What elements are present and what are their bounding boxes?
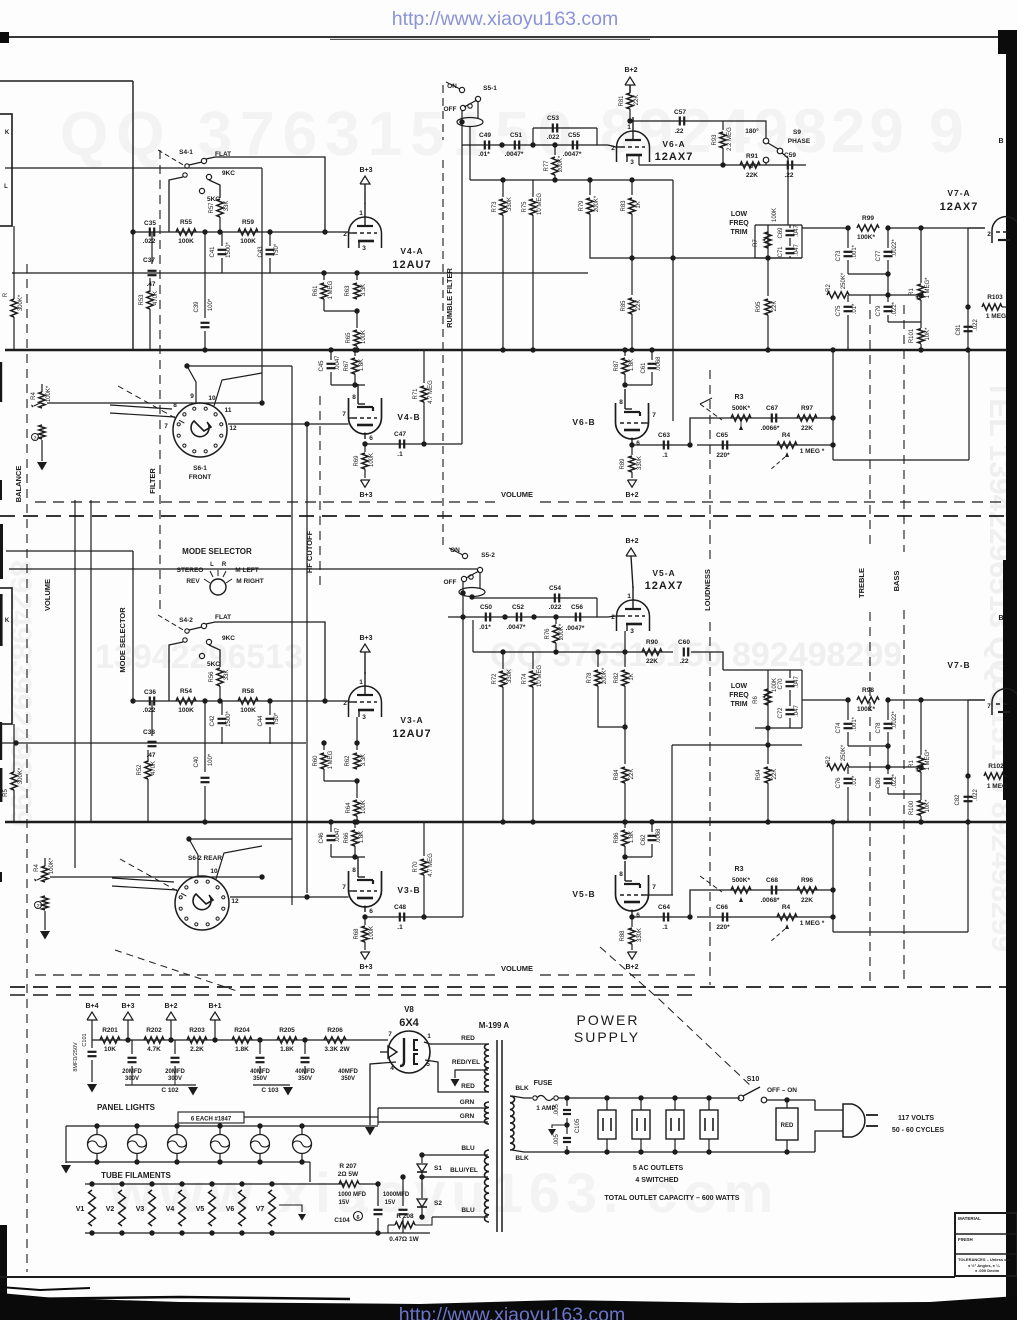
svg-text:300K*: 300K* [18,767,24,784]
wire [359,1183,378,1185]
svg-text:1: 1 [627,593,631,600]
svg-text:OFF: OFF [444,106,457,113]
wire [422,1176,488,1178]
svg-text:QQ 376315150: QQ 376315150 [60,100,580,169]
svg-text:10K*: 10K* [925,327,931,341]
svg-text:MODE SELECTOR: MODE SELECTOR [182,547,252,556]
resistor R65 [356,311,358,328]
wire [169,177,183,232]
wire [477,101,479,118]
svg-text:TRIM: TRIM [730,229,747,236]
svg-text:C45: C45 [319,360,325,372]
svg-text:1: 1 [359,210,363,217]
rotary switch S6-1 [173,403,227,457]
svg-text:470K: 470K [151,761,157,775]
svg-text:R59: R59 [242,219,254,226]
capacitor C52 [516,613,518,622]
triode V3-A [349,686,382,717]
resistor R101 [918,329,924,344]
capacitor C54 [534,597,597,599]
wire [261,168,263,403]
wire [887,274,889,295]
svg-text:C70: C70 [778,678,784,690]
dashed diagonal linkage [115,950,240,992]
wire [849,294,921,296]
resistor R5 300K [11,772,17,790]
svg-text:V2: V2 [106,1206,115,1213]
wire [216,846,262,879]
svg-text:.005: .005 [554,1104,560,1116]
svg-text:C46: C46 [319,832,325,844]
svg-text:3: 3 [630,159,634,166]
svg-text:R89: R89 [620,458,626,470]
svg-text:R94: R94 [756,769,762,781]
svg-text:.0068: .0068 [656,356,662,372]
resistor R78 [597,652,599,667]
svg-text:S6-1: S6-1 [193,465,207,472]
wire [209,645,220,667]
winding GRN section [485,1102,490,1124]
resistor R2 [827,292,849,298]
svg-text:330K: 330K [507,669,513,683]
svg-text:C77: C77 [876,250,882,262]
resistor R57 [217,199,223,217]
wire [512,1096,532,1098]
svg-text:7: 7 [987,703,991,710]
wire [455,1070,488,1078]
resistor R3 lower [731,887,751,893]
svg-text:POWER: POWER [577,1012,640,1028]
svg-text:4 SWITCHED: 4 SWITCHED [635,1177,678,1184]
capacitor C53 [532,128,534,145]
svg-text:12AX7: 12AX7 [655,151,694,163]
svg-text:500K*: 500K* [732,405,751,412]
svg-text:LOW: LOW [731,211,748,218]
wire [887,746,889,767]
svg-text:R70: R70 [413,861,419,873]
svg-text:V6-B: V6-B [572,417,595,427]
svg-text:C37: C37 [143,257,155,264]
resistor R75 [532,180,534,197]
resistor R62 [356,743,358,750]
resistor R59 [238,229,258,235]
ac outlet 1 [598,1110,616,1139]
svg-text:C65: C65 [716,432,728,439]
svg-text:330K: 330K [507,197,513,211]
svg-text:6: 6 [636,912,640,919]
svg-text:V3-A: V3-A [400,715,423,725]
svg-text:.0022*: .0022* [892,239,898,257]
svg-text:B+2: B+2 [625,538,638,545]
dashed lever 2 [120,859,188,897]
capacitor C63 [663,441,665,450]
svg-text:.022*: .022* [892,301,898,316]
svg-text:OFF – ON: OFF – ON [767,1087,797,1094]
wire [462,617,464,917]
svg-text:12AU7: 12AU7 [392,259,431,271]
svg-text:B: B [998,615,1003,622]
wire [66,1161,310,1163]
wire [590,214,802,258]
svg-text:100*: 100* [208,298,214,311]
triode V7-A partial [992,217,1017,243]
svg-text:8MFD/250V: 8MFD/250V [73,1042,79,1072]
svg-text:1.8K: 1.8K [359,359,365,371]
wire [206,622,325,701]
svg-text:180°: 180° [745,127,759,135]
resistor R53 [149,278,151,292]
svg-text:100K: 100K [178,707,194,714]
svg-text:.0047*: .0047* [566,625,585,632]
capacitor C66 [722,913,724,922]
svg-text:LOUDNESS: LOUDNESS [703,569,712,611]
svg-text:8: 8 [619,871,623,878]
svg-text:1: 1 [427,1033,431,1040]
wire [697,444,833,446]
resistor R60 [323,743,325,750]
dashed lever R3 lower [700,876,722,892]
capacitor C35 [149,228,151,237]
capacitor C78 [887,700,889,720]
wire [479,572,481,588]
resistor R4 pot [777,442,797,448]
wire [848,745,888,747]
svg-text:R65: R65 [346,332,352,344]
svg-text:330K: 330K [637,928,643,942]
wire [512,1150,567,1152]
resistor R99 [857,225,879,231]
svg-text:5KC: 5KC [207,661,220,668]
svg-text:330K: 330K [637,456,643,470]
svg-text:40MFD: 40MFD [250,1069,270,1075]
svg-text:C48: C48 [394,904,406,911]
svg-text:S2: S2 [434,1200,442,1207]
svg-text:100K: 100K [361,330,367,344]
capacitor C44 [269,701,271,715]
svg-text:R100: R100 [909,800,915,815]
resistor R70 [423,822,425,856]
resistor R87 [624,350,626,356]
svg-text:C80: C80 [876,777,882,789]
svg-text:R1: R1 [909,760,915,768]
svg-text:C74: C74 [836,722,842,734]
winding BLU section [484,1150,489,1222]
svg-text:C35: C35 [144,220,156,227]
wire [112,886,177,890]
wire [461,110,463,145]
wire [671,745,673,895]
capacitor C50 [485,613,487,622]
svg-text:C61: C61 [641,362,647,374]
input jack box 2 [0,588,12,724]
svg-text:C72: C72 [778,707,784,719]
svg-text:R73: R73 [492,201,498,213]
svg-text:HF CUTOFF: HF CUTOFF [305,530,314,573]
svg-text:TREBLE: TREBLE [857,568,866,598]
filament V4 [179,1190,186,1226]
svg-text:R202: R202 [146,1027,162,1034]
svg-text:22K: 22K [636,300,642,311]
power plug [843,1104,865,1137]
wire [364,652,366,674]
resistor R97 [797,415,817,421]
svg-text:10 MEG: 10 MEG [537,665,543,687]
svg-text:1 MEG *: 1 MEG * [800,448,825,455]
wire [462,581,464,617]
svg-text:BLK: BLK [515,1155,529,1162]
resistor R72 [502,652,504,669]
wire [639,164,806,166]
resistor R81 [629,85,631,92]
resistor R58 [238,698,258,704]
wire [92,1039,388,1041]
wire [815,1131,843,1152]
svg-text:6: 6 [369,435,373,442]
svg-text:C78: C78 [876,722,882,734]
triode V6-B [616,403,649,439]
resistor R94 [767,728,769,764]
wire [967,232,969,350]
svg-text:.01*: .01* [479,624,491,631]
svg-text:S5-1: S5-1 [483,85,497,92]
svg-text:8: 8 [352,394,356,401]
wire [625,384,652,386]
svg-text:FREQ: FREQ [729,692,749,699]
wire [690,418,833,445]
wire [782,153,788,225]
resistor R82 [624,652,626,667]
resistor R88 [631,916,633,927]
svg-text:V4: V4 [166,1206,175,1213]
capacitor .005 a [566,1098,568,1106]
svg-text:750*: 750* [274,243,280,256]
ground arrow RED/YEL [451,1079,460,1087]
resistor R56 [217,668,223,686]
diode S2 [421,1177,423,1198]
switch S5-1 [444,82,498,127]
wire [354,740,359,745]
ground arrow balance [41,440,43,461]
svg-text:R2: R2 [826,756,832,764]
trim network R7 [767,225,769,258]
svg-text:1.8K: 1.8K [629,831,635,843]
svg-text:250K*: 250K* [841,272,847,289]
wire [85,1232,430,1234]
wire [90,500,92,822]
svg-text:6 EACH #1847: 6 EACH #1847 [191,1117,232,1123]
svg-text:B+2: B+2 [164,1003,177,1010]
svg-text:R78: R78 [587,672,593,684]
capacitor C103c [347,1040,349,1054]
svg-text:MATERIAL: MATERIAL [958,1216,981,1221]
svg-text:220*: 220* [716,452,730,459]
svg-text:R61: R61 [313,285,319,297]
wire [387,1225,389,1233]
svg-text:.01*: .01* [852,775,858,786]
svg-text:B+2: B+2 [625,964,638,971]
svg-text:B: B [998,138,1003,145]
svg-text:0.47Ω 1W: 0.47Ω 1W [389,1236,419,1243]
resistor R61 [323,273,325,280]
svg-text:1000 MFD: 1000 MFD [338,1192,367,1198]
svg-text:R85: R85 [621,300,627,312]
svg-text:TOTAL OUTLET CAPACITY – 600: TOTAL OUTLET CAPACITY – 600 WATTS [605,1195,740,1202]
svg-text:V3: V3 [136,1206,145,1213]
wire [253,1084,290,1086]
svg-text:R84: R84 [614,769,620,781]
wire [461,145,463,444]
svg-text:C55: C55 [568,132,580,139]
svg-text:R93: R93 [712,134,718,146]
svg-text:VOLUME: VOLUME [501,964,533,973]
svg-text:22K: 22K [746,172,758,179]
svg-text:http://www.xiaoyu163.com: http://www.xiaoyu163.com [392,8,619,30]
svg-text:R72: R72 [492,673,498,685]
svg-text:7: 7 [342,884,346,891]
wire [12,272,588,274]
svg-text:C105: C105 [575,1118,581,1133]
ground arrow C102 [188,1087,198,1096]
svg-text:R101: R101 [909,328,915,343]
svg-text:FILTER: FILTER [148,468,157,494]
wire [189,838,292,840]
wire [638,155,640,165]
svg-text:S6-2 REAR: S6-2 REAR [188,855,222,862]
wire [110,413,175,417]
svg-text:C76: C76 [836,777,842,789]
svg-text:.022: .022 [549,604,562,611]
dashed treble line [869,295,871,550]
svg-text:V1: V1 [76,1206,85,1213]
right edge black bar [1006,30,1017,1320]
wire [12,272,14,274]
svg-text:GRN: GRN [460,1099,475,1106]
capacitor C62 [651,822,653,832]
svg-text:C60: C60 [678,639,690,646]
svg-text:R103: R103 [987,294,1003,301]
svg-text:BLU: BLU [461,1207,475,1214]
wire [815,1100,843,1110]
filament V7 [269,1190,276,1226]
svg-text:5: 5 [426,1061,430,1068]
svg-text:.0066*: .0066* [761,425,780,432]
wire [187,366,196,404]
svg-text:100K: 100K [369,453,375,467]
wire [378,1107,488,1109]
svg-text:.005: .005 [554,1134,560,1146]
wire [324,780,357,782]
resistor R202 [144,1037,164,1043]
svg-text:R71: R71 [413,388,419,400]
transformer core [496,1040,498,1232]
ground arrow C101 [87,1084,97,1093]
svg-text:1 MEG: 1 MEG [328,280,334,299]
svg-text:R4: R4 [782,904,791,911]
svg-text:R97: R97 [801,405,813,412]
svg-text:http://www.xiaoyu163.com: http://www.xiaoyu163.com [399,1304,626,1320]
wire [767,1099,815,1101]
capacitor C80 [887,767,889,774]
capacitor C51 [514,141,516,150]
resistor R68 [364,917,366,925]
wire [291,366,293,905]
svg-text:S9: S9 [793,129,801,136]
wire [125,1084,196,1086]
svg-text:9: 9 [190,393,194,400]
svg-text:R90: R90 [646,639,658,646]
svg-text:B+3: B+3 [359,964,372,971]
svg-text:2: 2 [987,231,991,238]
resistor R103 [982,304,1002,310]
svg-text:3: 3 [362,245,366,252]
svg-text:7: 7 [342,411,346,418]
svg-text:R95: R95 [756,301,762,313]
resistor 300K upper-left [11,299,17,317]
svg-text:10: 10 [208,395,216,402]
svg-text:7: 7 [388,1031,392,1038]
mode selector control [177,547,264,595]
svg-text:B+2: B+2 [624,67,637,74]
wire [74,500,76,868]
wire [473,651,673,653]
svg-text:7: 7 [652,412,656,419]
svg-text:6: 6 [356,1215,359,1221]
svg-text:R69: R69 [354,455,360,467]
resistor R96 [797,887,817,893]
svg-text:12AX7: 12AX7 [645,580,684,592]
capacitor C75 [847,295,849,302]
svg-text:350V: 350V [298,1076,312,1082]
wire [697,916,833,918]
tube V8 6X4 [380,1031,431,1073]
svg-text:TOLERANCES – Unless oth: TOLERANCES – Unless oth [958,1257,1011,1262]
capacitor C39 [204,232,206,318]
svg-text:33K: 33K [224,670,230,681]
svg-text:.022: .022 [973,319,979,331]
ground arrow filaments [279,1205,302,1212]
wire [228,423,349,425]
svg-text:STEREO: STEREO [177,567,204,574]
resistor R63 [356,273,358,280]
svg-text:R60: R60 [313,755,319,767]
svg-text:3.3K: 3.3K [361,284,367,296]
resistor R204 [232,1037,252,1043]
svg-text:.1: .1 [397,924,403,931]
wire [968,228,985,232]
svg-text:9KC: 9KC [222,170,235,177]
svg-text:1K: 1K [636,201,642,208]
wire [9,568,477,570]
svg-text:RED/YEL: RED/YEL [452,1059,480,1066]
panel lamp 4 [211,1135,230,1154]
capacitor C74 [847,700,849,720]
svg-text:200K*: 200K* [559,623,565,640]
wire [132,569,134,701]
wire [672,744,802,746]
svg-text:C52: C52 [512,604,524,611]
svg-text:1 MEG*: 1 MEG* [925,749,931,771]
svg-text:0°: 0° [750,162,757,170]
capacitor C43 [269,232,271,246]
svg-text:R 207: R 207 [339,1163,357,1170]
svg-text:RED: RED [781,1123,794,1129]
svg-text:100*: 100* [208,753,214,766]
wire [5,167,262,169]
wire [85,1183,345,1185]
svg-text:PANEL LIGHTS: PANEL LIGHTS [97,1103,156,1112]
svg-text:R4: R4 [31,392,37,400]
dashed linkage line x320 [319,396,321,586]
